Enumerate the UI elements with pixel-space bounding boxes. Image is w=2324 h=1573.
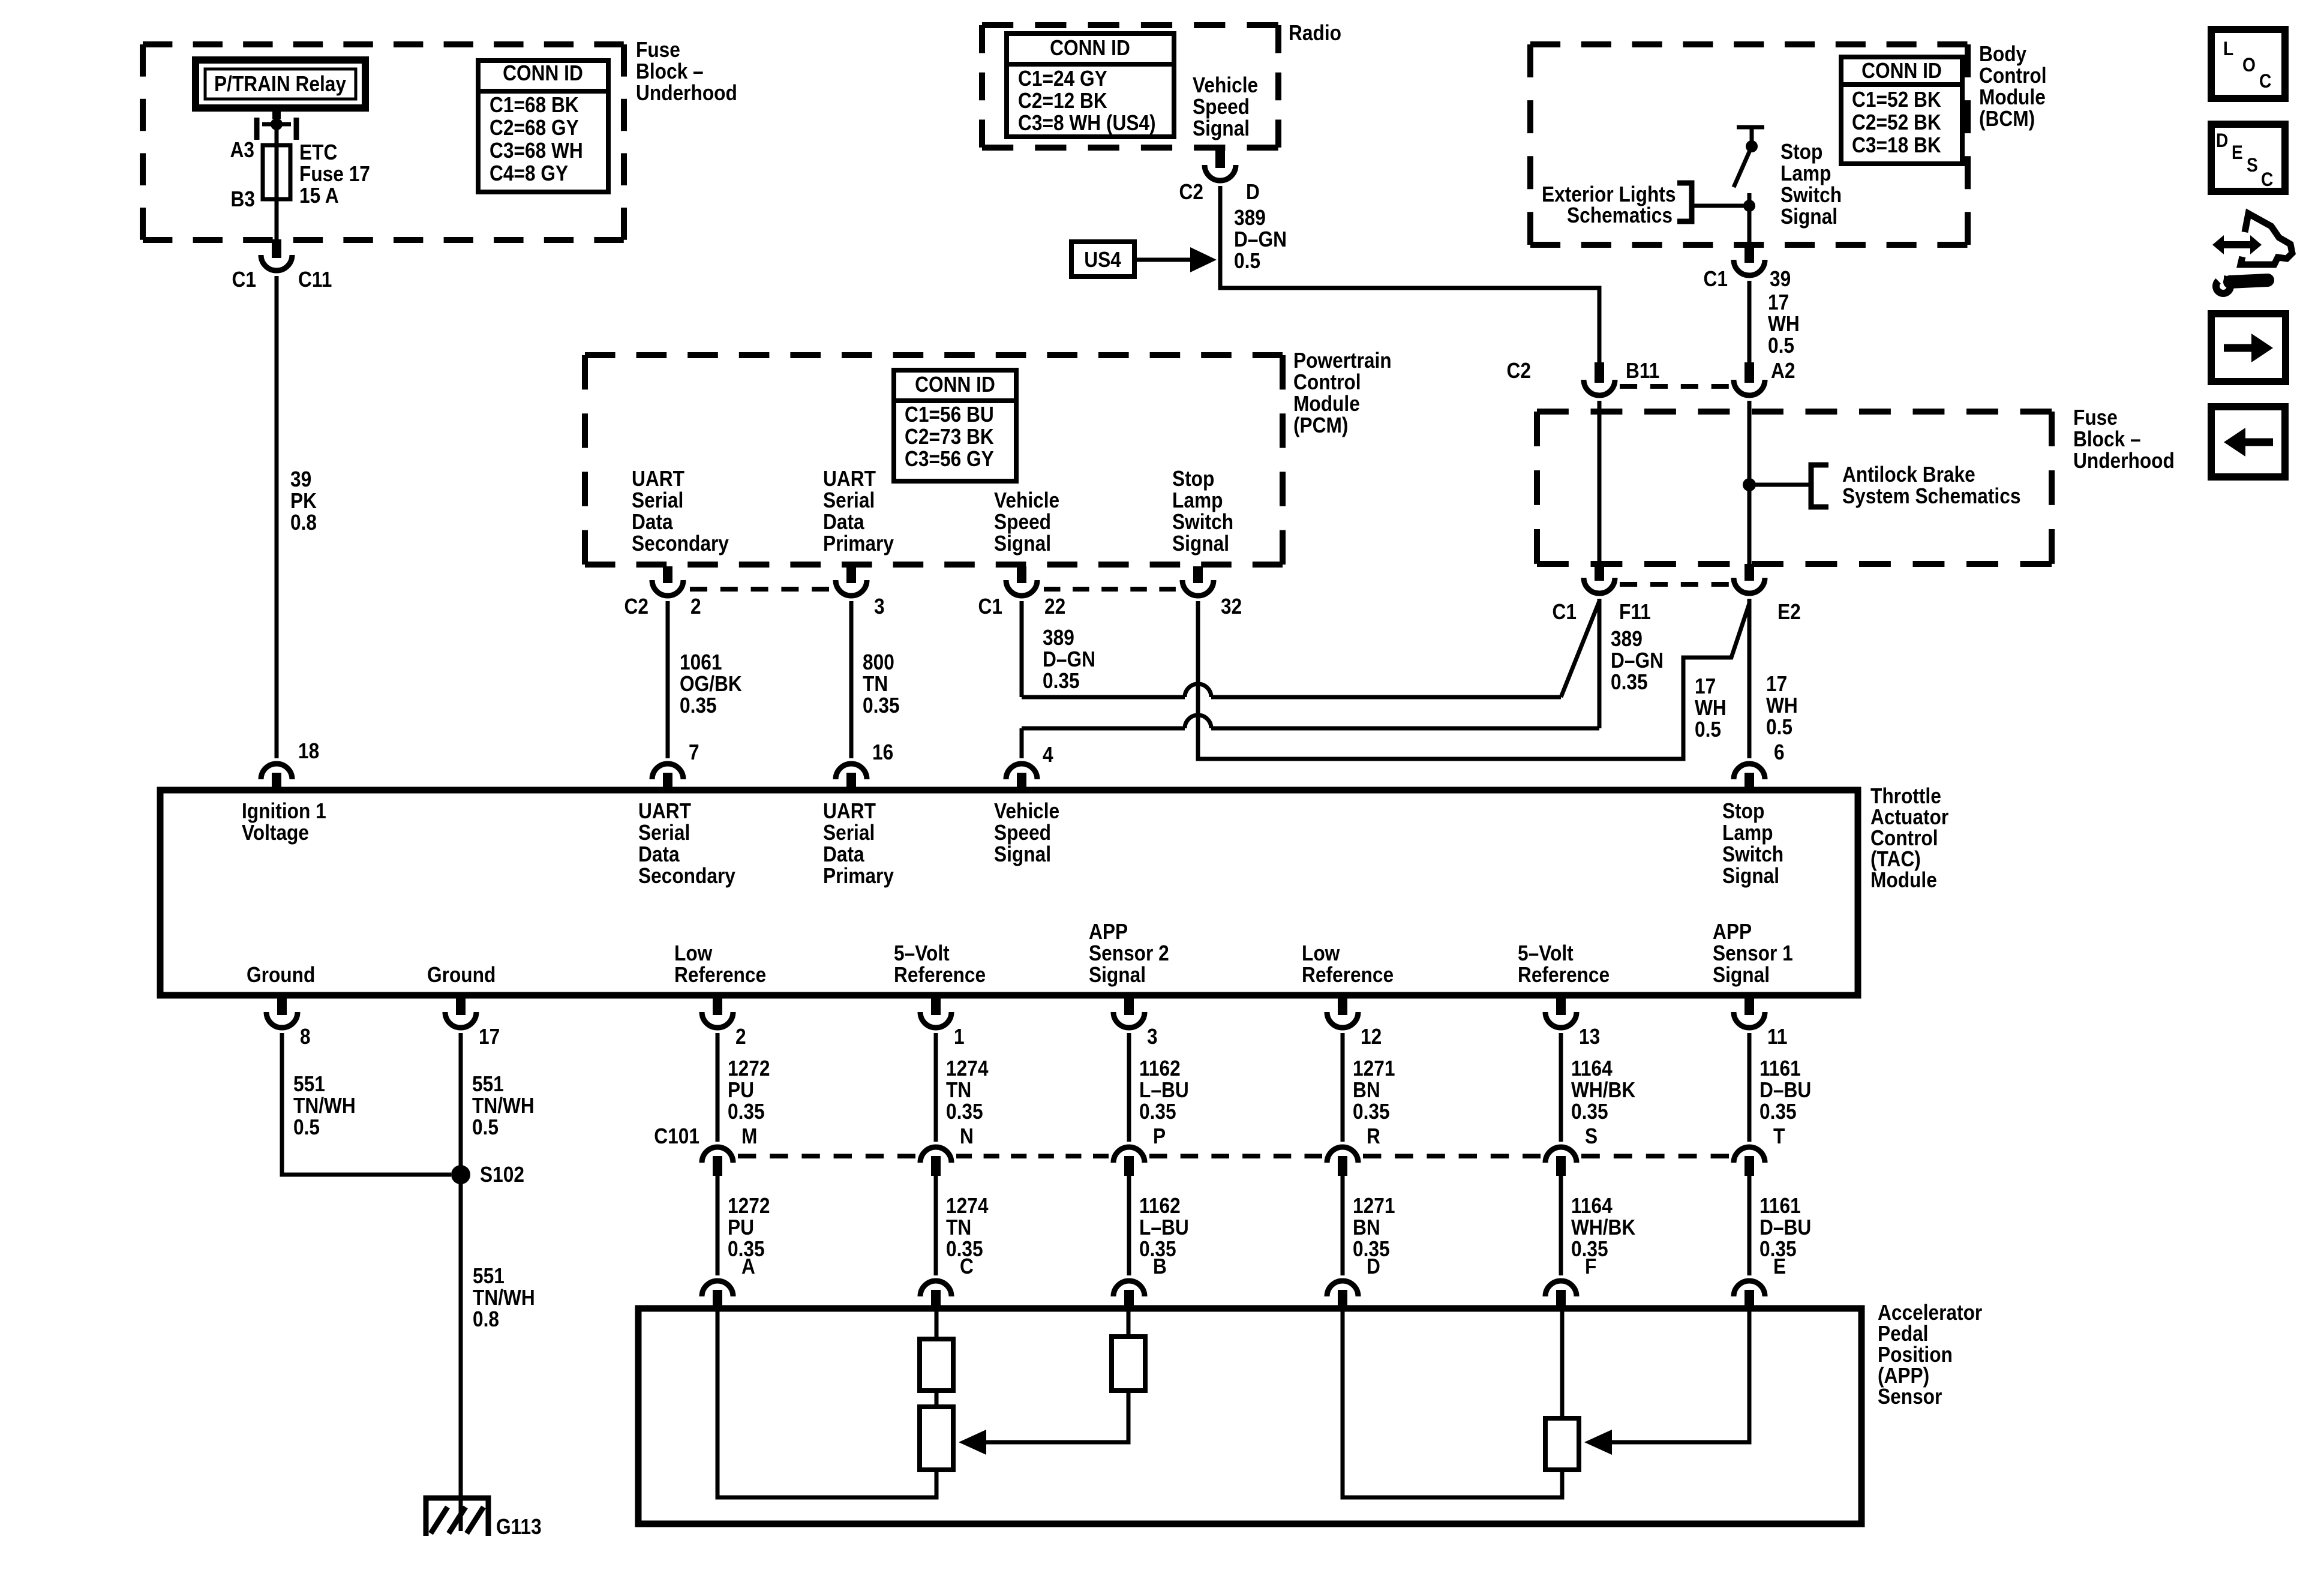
body control module dashed enclosure <box>1530 44 1968 245</box>
label S <box>1585 1124 1598 1148</box>
svg-text:VehicleSpeedSignal: VehicleSpeedSignal <box>994 799 1059 866</box>
accelerator pedal position sensor box <box>638 1308 1861 1524</box>
pin A3 label <box>230 138 254 162</box>
svg-text:A: A <box>741 1254 755 1278</box>
wire 389 D-GN 0.35 - PCM pin 22 to F11 (vehicle speed signal) <box>1022 601 1599 697</box>
pin 18 label <box>298 739 319 763</box>
svg-text:N: N <box>960 1124 974 1148</box>
TAC port label APP Sensor 2 Signal (pin 3) <box>1089 920 1169 987</box>
svg-text:C: C <box>2259 71 2271 92</box>
splice S102 <box>451 1165 470 1184</box>
label C1 (F11 row) <box>1553 600 1577 624</box>
CONN ID table (fuse block underhood) <box>478 61 608 192</box>
label P <box>1153 1124 1166 1148</box>
label Accelerator Pedal Position (APP) Sensor <box>1878 1301 1982 1409</box>
svg-text:Schematics: Schematics <box>1567 203 1673 227</box>
svg-text:6: 6 <box>1774 740 1785 764</box>
svg-text:C: C <box>960 1254 974 1278</box>
label C1 (PCM) <box>978 595 1002 619</box>
svg-text:S102: S102 <box>480 1163 524 1187</box>
connector APP pin F <box>1545 1281 1577 1311</box>
svg-text:G113: G113 <box>496 1515 542 1539</box>
wire 551 TN/WH 0.5 from TAC pin 8 <box>282 1033 451 1175</box>
wire label 389 D-GN 0.5 <box>1234 206 1287 273</box>
icon LOC box <box>2211 29 2285 98</box>
svg-text:B3: B3 <box>231 187 255 211</box>
wire stop lamp E2 to TAC pin 6 <box>1747 599 1752 758</box>
icon forward arrow box <box>2211 314 2286 382</box>
TAC pin 1 connector <box>920 995 951 1028</box>
TAC pin 2 connector <box>702 995 733 1028</box>
wire R1 to wiper element <box>935 1391 939 1407</box>
TAC pin 4 connector <box>1006 764 1037 790</box>
wire C101 to APP sensor pin E <box>1747 1176 1752 1275</box>
svg-text:CONN ID: CONN ID <box>1861 59 1942 83</box>
relay K P/TRAIN Relay (bold double box) <box>196 60 365 108</box>
wire label 1164 WH/BK 0.35 (upper) <box>1571 1056 1636 1124</box>
pin 17 label <box>479 1025 500 1049</box>
svg-text:C1: C1 <box>1704 267 1728 291</box>
label C2 (PCM) <box>624 595 648 619</box>
fuse block - underhood (right) dashed enclosure <box>1537 412 2052 564</box>
svg-text:A3: A3 <box>230 138 254 162</box>
svg-text:A2: A2 <box>1771 359 1795 383</box>
radio connector C2 pin D <box>1205 148 1236 181</box>
wire C101 to APP sensor pin B <box>1127 1176 1131 1275</box>
US4 arrow pointing to wire <box>1134 247 1217 272</box>
TAC port label 5–Volt Reference (pin 1) <box>894 941 986 987</box>
TAC port label Stop Lamp Switch Signal <box>1722 799 1783 888</box>
connector C101 pin M <box>702 1147 733 1176</box>
pin 13 label <box>1579 1025 1600 1049</box>
wire label 551 TN/WH 0.8 <box>473 1264 535 1331</box>
CONN ID table (PCM) <box>894 370 1016 481</box>
wire TAC pin to C101 pin T <box>1747 1033 1752 1142</box>
resistor R3 (app sensor 2 signal) <box>1112 1337 1145 1391</box>
TAC port label APP Sensor 1 Signal (pin 11) <box>1713 920 1793 987</box>
label S102 <box>480 1163 524 1187</box>
wire B11 to F11 inside fuse block <box>1598 401 1602 565</box>
svg-text:M: M <box>741 1124 757 1148</box>
label E2 <box>1777 600 1801 624</box>
wire fuse B3 to connector C1/C11 <box>275 199 279 240</box>
wire TAC pin to C101 pin M <box>716 1033 720 1142</box>
wire 800 TN 0.35 - UART primary <box>849 601 854 758</box>
connector APP pin E <box>1734 1281 1765 1311</box>
label Throttle Actuator Control (TAC) Module <box>1870 784 1948 892</box>
connector pin E2 <box>1734 564 1765 593</box>
TAC pin 16 connector <box>836 764 867 790</box>
connector boundary dashes C101 <box>1149 1154 1322 1158</box>
junction to antilock brake system <box>1743 478 1811 491</box>
connector boundary dashes C101 <box>956 1154 1109 1158</box>
connector pin A2 <box>1734 362 1765 395</box>
svg-text:E: E <box>1773 1254 1786 1278</box>
label C1 (BCM) <box>1704 267 1728 291</box>
TAC port label UART Serial Data Secondary <box>638 799 735 888</box>
svg-text:E: E <box>2232 142 2243 163</box>
wire label 1061 OG/BK 0.35 <box>680 650 742 718</box>
wire label 389 D-GN 0.35 (pcm side) <box>1043 626 1095 693</box>
value label ETC Fuse 17 15 A <box>299 140 370 208</box>
svg-text:ThrottleActuatorControl(TAC)Mo: ThrottleActuatorControl(TAC)Module <box>1870 784 1948 892</box>
svg-text:39: 39 <box>1770 267 1791 291</box>
svg-text:C2: C2 <box>624 595 648 619</box>
svg-text:F: F <box>1585 1254 1596 1278</box>
wire label 1162 L–BU 0.35 (lower) <box>1139 1194 1189 1261</box>
label C2 (underhood harness) <box>1507 359 1531 383</box>
svg-text:CONN ID: CONN ID <box>503 61 583 85</box>
wire label 17 WH 0.5 (riser) <box>1695 674 1727 742</box>
label D <box>1367 1254 1380 1278</box>
label R <box>1367 1124 1380 1148</box>
svg-text:P/TRAIN Relay: P/TRAIN Relay <box>214 72 346 96</box>
pin 12 label <box>1361 1025 1382 1049</box>
wiper element box (sensor 2) <box>920 1407 953 1470</box>
powertrain control module dashed enclosure <box>585 355 1283 565</box>
TAC pin 12 connector <box>1327 995 1358 1028</box>
svg-text:1: 1 <box>954 1025 965 1049</box>
connector APP pin A <box>702 1281 733 1311</box>
label Powertrain Control Module (PCM) <box>1293 349 1392 437</box>
TAC port label Ground (pin 8) <box>247 963 315 987</box>
connector C101 pin S <box>1545 1147 1577 1176</box>
wire relay to fuse <box>275 124 279 146</box>
TAC pin 6 connector <box>1734 764 1765 790</box>
svg-text:17: 17 <box>479 1025 500 1049</box>
wire 551 TN/WH 0.5 from TAC pin 17 <box>459 1033 463 1175</box>
svg-text:VehicleSpeedSignal: VehicleSpeedSignal <box>994 488 1059 556</box>
PCM port label UART Serial Data Primary <box>823 467 894 556</box>
svg-text:8: 8 <box>300 1025 311 1049</box>
wire C101 to APP sensor pin C <box>934 1176 938 1275</box>
svg-text:VehicleSpeedSignal: VehicleSpeedSignal <box>1193 73 1258 140</box>
label C <box>960 1254 974 1278</box>
connector boundary dashes C101 <box>738 1154 915 1158</box>
wire label 551 TN/WH 0.5 (pin 17) <box>472 1072 535 1139</box>
svg-text:32: 32 <box>1221 595 1242 619</box>
svg-text:11: 11 <box>1767 1025 1787 1049</box>
wire 39 PK 0.8 - ignition voltage feed to TAC pin 18 <box>275 276 279 758</box>
label Exterior Lights Schematics <box>1542 182 1676 227</box>
svg-text:CONN ID: CONN ID <box>915 373 995 397</box>
label F <box>1585 1254 1596 1278</box>
label 22 (PCM pin) <box>1044 595 1065 619</box>
PCM port label Stop Lamp Switch Signal <box>1172 467 1233 556</box>
label B <box>1153 1254 1167 1278</box>
relay output pin bracket and contact <box>257 107 296 140</box>
connector C101 pin T <box>1734 1147 1765 1176</box>
wire label 1272 PU 0.35 (upper) <box>728 1056 770 1124</box>
TAC port label Low Reference (pin 2) <box>674 941 766 987</box>
wire label 1162 L–BU 0.35 (upper) <box>1139 1056 1189 1124</box>
label A <box>741 1254 755 1278</box>
connector C101 pin P <box>1113 1147 1145 1176</box>
label 32 (PCM pin) <box>1221 595 1242 619</box>
wire C101 to APP sensor pin A <box>716 1176 720 1275</box>
wire TAC pin to C101 pin S <box>1559 1033 1563 1142</box>
connector C2 pin B11 <box>1584 362 1615 395</box>
TAC port label Vehicle Speed Signal <box>994 799 1059 866</box>
wire label 1161 D–BU 0.35 (lower) <box>1759 1194 1811 1261</box>
connector boundary dashes C101 <box>1363 1154 1541 1158</box>
connector APP pin C <box>920 1281 951 1311</box>
radio dashed enclosure <box>982 25 1278 148</box>
label Body Control Module (BCM) <box>1979 42 2047 131</box>
wire TAC pin to C101 pin N <box>934 1033 938 1142</box>
pin 7 label <box>689 740 699 764</box>
TAC pin 3 connector <box>1113 995 1145 1028</box>
svg-text:2: 2 <box>735 1025 746 1049</box>
stop lamp switch symbol in BCM <box>1734 127 1764 206</box>
wire APP pin C into resistor <box>935 1311 939 1339</box>
svg-text:C1: C1 <box>978 595 1002 619</box>
svg-text:Ground: Ground <box>247 963 315 987</box>
pin 8 label <box>300 1025 311 1049</box>
resistor R1 (app sensor 2 divider) <box>920 1339 953 1391</box>
svg-text:L: L <box>2223 38 2233 59</box>
CONN ID table (BCM) <box>1841 57 1962 164</box>
TAC pin 8 connector <box>266 995 298 1028</box>
svg-text:7: 7 <box>689 740 699 764</box>
hop over stop lamp wire (tac vss run) <box>1185 715 1211 728</box>
wire label 1271 BN 0.35 (lower) <box>1353 1194 1395 1261</box>
svg-text:C2: C2 <box>1179 180 1203 204</box>
option box US4 <box>1071 242 1134 277</box>
wire label 1274 TN 0.35 (lower) <box>946 1194 989 1261</box>
fuse F17 ETC Fuse 17 15A symbol <box>263 145 290 199</box>
connector C1 / C11 (fuse block to harness) <box>261 239 292 271</box>
connector boundary dashes pins 2-3 <box>690 587 829 592</box>
PCM connector C2 pin 2 <box>652 566 683 596</box>
PCM port label UART Serial Data Secondary <box>632 467 729 556</box>
wire APP pin A to wiper bottom (sensor 2 low ref) <box>717 1311 936 1497</box>
wire C101 to APP sensor pin F <box>1559 1176 1563 1275</box>
throttle actuator control module box <box>160 790 1858 995</box>
svg-text:T: T <box>1773 1124 1785 1148</box>
wire label 39 PK 0.8 <box>290 467 317 535</box>
wire TAC pin to C101 pin P <box>1127 1033 1131 1142</box>
TAC pin 13 connector <box>1545 995 1577 1028</box>
label B11 <box>1626 359 1659 383</box>
PCM pin 32 <box>1182 566 1214 596</box>
svg-text:4: 4 <box>1043 743 1053 767</box>
wire label 1274 TN 0.35 (upper) <box>946 1056 989 1124</box>
wire A2 to E2 inside fuse block <box>1747 401 1752 565</box>
bracket antilock brake system schematics <box>1811 465 1828 507</box>
hop over stop lamp wire (vss run) <box>1185 684 1211 697</box>
wire 389 D-GN 0.5 radio vehicle speed signal <box>1220 186 1599 364</box>
wire 1061 OG/BK 0.35 - UART secondary <box>666 601 670 758</box>
pin 16 label <box>872 740 893 764</box>
svg-text:3: 3 <box>1147 1025 1158 1049</box>
label C2 (radio) <box>1179 180 1203 204</box>
svg-text:2: 2 <box>690 595 701 619</box>
wire label 800 TN 0.35 <box>863 650 900 718</box>
label Antilock Brake System Schematics <box>1842 463 2020 508</box>
svg-text:C1=56 BUC2=73 BKC3=56 GY: C1=56 BUC2=73 BKC3=56 GY <box>905 403 994 471</box>
svg-text:12: 12 <box>1361 1025 1382 1049</box>
wire TAC pin to C101 pin R <box>1341 1033 1345 1142</box>
fuse block - underhood (top left) dashed enclosure <box>143 44 624 240</box>
svg-text:System Schematics: System Schematics <box>1842 484 2020 508</box>
PCM pin 3 <box>836 566 867 596</box>
label G113 <box>496 1515 542 1539</box>
wire stop lamp switch signal PCM pin 32 to E2 <box>1198 601 1749 759</box>
pin 4 label <box>1043 743 1053 767</box>
svg-text:S: S <box>1585 1124 1598 1148</box>
label C1 <box>232 268 256 292</box>
junction exterior lights / stop lamp signal <box>1743 200 1755 245</box>
label 39 (BCM pin) <box>1770 267 1791 291</box>
connector boundary dashes F11-E2 <box>1620 582 1729 587</box>
label 2 (PCM pin) <box>690 595 701 619</box>
label N <box>960 1124 974 1148</box>
label F11 <box>1619 600 1651 624</box>
svg-text:O: O <box>2242 55 2256 76</box>
svg-text:D: D <box>1246 180 1260 204</box>
TAC port label Ground (pin 17) <box>427 963 496 987</box>
wire C101 to APP sensor pin D <box>1341 1176 1345 1275</box>
connector APP pin B <box>1113 1281 1145 1311</box>
wire label 551 TN/WH 0.5 (pin 8) <box>293 1072 356 1139</box>
pin 11 label <box>1767 1025 1787 1049</box>
svg-text:D: D <box>2216 130 2228 151</box>
wire 551 TN/WH 0.8 to ground G113 <box>459 1175 463 1531</box>
svg-text:C1=52 BKC2=52 BKC3=18 BK: C1=52 BKC2=52 BKC3=18 BK <box>1852 88 1941 157</box>
wire label 1164 WH/BK 0.35 (lower) <box>1571 1194 1636 1261</box>
svg-text:Antilock Brake: Antilock Brake <box>1842 463 1975 487</box>
svg-text:Ground: Ground <box>427 963 496 987</box>
label Radio <box>1289 21 1341 45</box>
BCM connector C1 pin 39 <box>1734 244 1765 275</box>
label 3 (PCM pin) <box>874 595 885 619</box>
svg-text:CONN ID: CONN ID <box>1050 36 1130 60</box>
TAC pin 18 connector <box>261 764 292 790</box>
connector boundary dashes C101 <box>1581 1154 1729 1158</box>
wire label 1271 BN 0.35 (upper) <box>1353 1056 1395 1124</box>
icon electrical repair (arrow + wrench) <box>2209 214 2292 293</box>
svg-text:16: 16 <box>872 740 893 764</box>
wire label 1272 PU 0.35 (lower) <box>728 1194 770 1261</box>
svg-text:P: P <box>1153 1124 1166 1148</box>
svg-text:F11: F11 <box>1619 600 1651 624</box>
wire label 17 WH 0.5 (E2 side) <box>1766 672 1798 739</box>
connector C101 pin R <box>1327 1147 1358 1176</box>
radio port label Vehicle Speed Signal <box>1193 73 1258 140</box>
connector APP pin D <box>1327 1281 1358 1311</box>
TAC pin 11 connector <box>1734 995 1765 1028</box>
connector C1 pin F11 <box>1584 564 1615 593</box>
svg-text:S: S <box>2247 155 2258 176</box>
wiper arrow sensor 1 <box>1584 1311 1749 1455</box>
label T <box>1773 1124 1785 1148</box>
label A2 <box>1771 359 1795 383</box>
wiper element box (sensor 1) <box>1545 1418 1579 1470</box>
wire label 389 D-GN 0.35 (f11 side) <box>1611 627 1664 694</box>
bracket to exterior lights schematics <box>1677 183 1749 221</box>
svg-text:B: B <box>1153 1254 1167 1278</box>
connector boundary dashes B11-A2 <box>1620 384 1729 389</box>
connector C101 pin N <box>920 1147 951 1176</box>
icon back arrow box <box>2211 407 2285 477</box>
wire 17 WH 0.5 BCM to fuse block A2 <box>1747 281 1752 364</box>
svg-text:R: R <box>1367 1124 1380 1148</box>
label C11 <box>298 268 332 292</box>
TAC port label Low Reference (pin 12) <box>1302 941 1394 987</box>
svg-text:Radio: Radio <box>1289 21 1341 45</box>
connector boundary dashes pins 22-32 <box>1044 587 1176 592</box>
TAC pin 7 connector <box>652 764 683 790</box>
svg-text:C2: C2 <box>1507 359 1531 383</box>
label Fuse Block - Underhood <box>636 38 737 105</box>
PCM connector C1 pin 22 <box>1006 566 1037 596</box>
svg-text:18: 18 <box>298 739 319 763</box>
pin 2 label <box>735 1025 746 1049</box>
svg-text:C101: C101 <box>654 1124 699 1148</box>
svg-text:C: C <box>2261 169 2273 190</box>
svg-text:13: 13 <box>1579 1025 1600 1049</box>
pin B3 label <box>231 187 255 211</box>
label C101 <box>654 1124 699 1148</box>
svg-text:D: D <box>1367 1254 1380 1278</box>
label D (radio pin) <box>1246 180 1260 204</box>
label Fuse Block - Underhood (right) <box>2073 406 2175 473</box>
TAC port label Ignition 1 Voltage <box>242 799 326 845</box>
svg-text:C1: C1 <box>232 268 256 292</box>
icon DESC box <box>2211 124 2285 191</box>
CONN ID table (radio) <box>1007 34 1174 137</box>
wire APP pin B into resistor R3 <box>1127 1311 1131 1337</box>
label M <box>741 1124 757 1148</box>
svg-text:B11: B11 <box>1626 359 1659 383</box>
wire label 17 WH 0.5 <box>1768 290 1800 358</box>
label E <box>1773 1254 1786 1278</box>
TAC port label UART Serial Data Primary <box>823 799 894 888</box>
pin 3 label <box>1147 1025 1158 1049</box>
wire APP pin F into wiper element <box>1560 1311 1565 1418</box>
switch port label Stop Lamp Switch Signal <box>1780 140 1842 229</box>
pin 1 label <box>954 1025 965 1049</box>
svg-text:22: 22 <box>1044 595 1065 619</box>
svg-text:C1: C1 <box>1553 600 1577 624</box>
TAC pin 17 connector <box>445 995 476 1028</box>
wiper arrow sensor 2 <box>959 1391 1128 1455</box>
wire APP pin D to wiper bottom (sensor 1 low ref) <box>1343 1311 1562 1497</box>
pin 6 label <box>1774 740 1785 764</box>
wire vehicle speed signal F11 branch to TAC pin 4 <box>1022 599 1599 758</box>
svg-text:3: 3 <box>874 595 885 619</box>
wire label 1161 D–BU 0.35 (upper) <box>1759 1056 1811 1124</box>
ground G113 symbol <box>426 1498 488 1536</box>
svg-text:US4: US4 <box>1084 248 1121 272</box>
svg-text:C11: C11 <box>298 268 332 292</box>
TAC port label 5–Volt Reference (pin 13) <box>1518 941 1610 987</box>
PCM port label Vehicle Speed Signal <box>994 488 1059 556</box>
svg-text:E2: E2 <box>1777 600 1801 624</box>
